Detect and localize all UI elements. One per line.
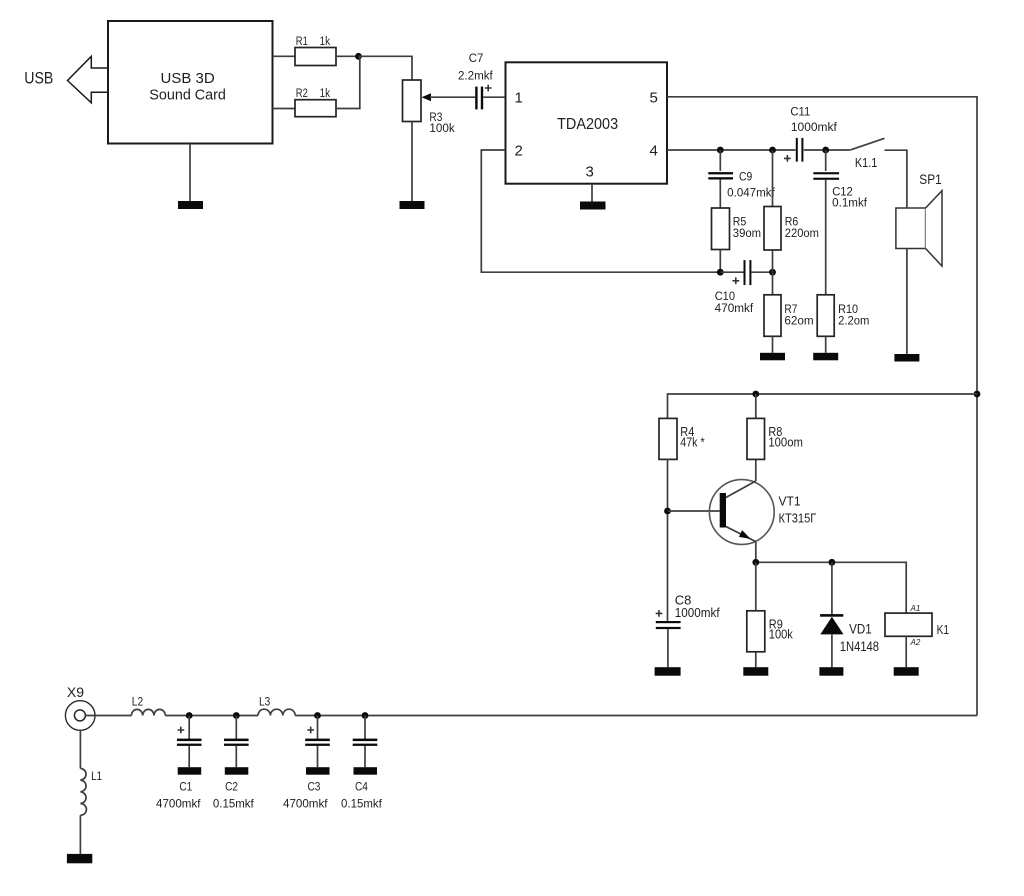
wire R3 to ground	[411, 122, 413, 202]
wire C2 down	[235, 716, 237, 740]
wire L2 to L3	[165, 715, 258, 717]
wire speaker to ground	[906, 249, 908, 355]
wire C12 node down	[825, 150, 827, 171]
wire junction to R3 top	[359, 56, 413, 80]
label C12 0.1mkf	[832, 187, 868, 210]
node VD1 junction	[829, 559, 836, 566]
label VT1 KT315G	[779, 494, 817, 526]
svg-text:C2: C2	[225, 780, 238, 794]
node bus / relay section tap	[974, 391, 981, 398]
svg-text:USB: USB	[24, 70, 53, 88]
svg-text:1k: 1k	[320, 88, 331, 100]
label C9 0.047mkf	[727, 172, 775, 200]
svg-text:1k: 1k	[320, 36, 331, 48]
capacitor C2	[224, 739, 249, 746]
svg-text:K1.1: K1.1	[855, 155, 877, 170]
block USB 3D Sound Card	[108, 21, 273, 144]
wire pin 3 to ground	[591, 184, 593, 202]
resistor R8	[747, 418, 765, 459]
label C1 4700mkf	[156, 780, 201, 811]
wire emitter down	[755, 542, 757, 563]
ground	[400, 201, 425, 209]
svg-text:1: 1	[515, 89, 523, 106]
wire base	[668, 510, 720, 512]
label VD1 1N4148	[840, 622, 879, 654]
resistor R6	[764, 207, 781, 251]
ground	[225, 767, 249, 775]
relay coil K1	[885, 613, 932, 636]
svg-text:A1: A1	[910, 604, 921, 613]
wire pin 4 to C11	[667, 149, 796, 151]
svg-text:0.1mkf: 0.1mkf	[832, 198, 868, 210]
svg-text:R10: R10	[838, 304, 858, 316]
wire node to R7	[772, 272, 774, 295]
label R4 47k*	[680, 425, 704, 449]
ground	[655, 667, 681, 676]
inductor L1	[80, 768, 86, 815]
capacitor C1	[177, 727, 202, 746]
svg-text:1000mkf: 1000mkf	[675, 606, 720, 620]
svg-text:C4: C4	[355, 780, 368, 794]
ground	[178, 201, 203, 209]
ground	[743, 667, 768, 676]
svg-text:1000mkf: 1000mkf	[791, 122, 838, 134]
svg-text:K1: K1	[937, 622, 950, 637]
label R1 1k	[296, 36, 331, 48]
wire pin 2 feedback loop	[481, 150, 720, 272]
svg-text:R1: R1	[296, 36, 308, 48]
svg-text:VD1: VD1	[849, 622, 872, 637]
wire VD1 to ground	[831, 634, 833, 667]
wiper arrow of R3	[422, 93, 432, 101]
wire L3 to right bus	[295, 715, 977, 717]
svg-text:КТ315Г: КТ315Г	[779, 510, 817, 525]
node C3 tap	[314, 712, 321, 719]
ground	[819, 667, 843, 676]
svg-text:2.2om: 2.2om	[838, 315, 869, 327]
wire C10 to R6/R7 node	[751, 271, 772, 273]
ground	[894, 354, 919, 362]
svg-text:47k *: 47k *	[680, 435, 704, 449]
wire sound card to ground	[189, 144, 191, 202]
svg-text:2: 2	[515, 143, 523, 160]
capacitor C10	[733, 260, 752, 285]
wire R10 to ground	[825, 336, 827, 353]
ground	[67, 854, 92, 863]
wire to R9	[755, 562, 757, 611]
label R7 62om	[784, 304, 813, 327]
wire R8 to collector	[755, 394, 757, 481]
node base junction	[664, 508, 671, 515]
wire switch to speaker	[885, 150, 907, 208]
label C11 1000mkf	[790, 107, 837, 135]
ground	[580, 202, 606, 210]
label C4 0.15mkf	[341, 780, 382, 811]
IC U1 TDA2003	[506, 62, 668, 183]
label R2 1k	[296, 88, 331, 100]
svg-text:R5: R5	[733, 217, 747, 229]
ground	[894, 667, 919, 676]
node emitter/R9 junction	[752, 559, 759, 566]
node R6/R7/C10 junction	[769, 269, 776, 276]
wire emitter rail to relay	[756, 562, 906, 613]
inductor L2	[131, 709, 165, 715]
wire R7 to ground	[772, 336, 774, 353]
svg-text:1N4148: 1N4148	[840, 639, 879, 654]
capacitor C9	[708, 172, 733, 179]
capacitor C12	[813, 172, 839, 180]
wire feedback node to C10	[720, 271, 743, 273]
svg-text:L1: L1	[91, 769, 102, 783]
svg-text:2.2mkf: 2.2mkf	[458, 71, 494, 83]
svg-text:R7: R7	[784, 304, 797, 316]
node C2 tap	[233, 712, 240, 719]
diode VD1	[820, 614, 843, 634]
wire C3 down	[317, 716, 319, 740]
wire pin 5 to right bus down to bottom	[667, 97, 977, 716]
svg-text:X9: X9	[67, 685, 84, 700]
label R6 220om	[785, 217, 819, 240]
svg-text:C10: C10	[715, 291, 735, 303]
svg-text:R6: R6	[785, 217, 799, 229]
label C7 2.2mkf	[458, 53, 494, 83]
label R10 2.2om	[838, 304, 869, 327]
label C8 1000mkf	[675, 594, 720, 621]
capacitor C8	[656, 610, 681, 629]
ground	[306, 767, 330, 775]
node R8 tap	[752, 391, 759, 398]
ground	[760, 353, 785, 361]
label C10 470mkf	[715, 291, 754, 315]
wire C8 to ground	[667, 629, 669, 667]
transistor VT1	[709, 480, 774, 545]
ground	[354, 767, 378, 775]
svg-text:220om: 220om	[785, 228, 819, 240]
wire R1 to junction	[336, 55, 359, 57]
svg-text:R2: R2	[296, 88, 308, 100]
resistor R10	[817, 295, 834, 337]
wire sound card to R1	[273, 55, 296, 57]
svg-text:5: 5	[650, 89, 658, 106]
node C1 tap	[186, 712, 193, 719]
wire relay section top rail	[668, 394, 978, 418]
node C11/C12 junction	[822, 147, 829, 154]
wire C9 to R5	[719, 180, 721, 209]
potentiometer R3	[403, 80, 422, 122]
svg-text:C7: C7	[469, 53, 484, 65]
label C3 4700mkf	[283, 780, 328, 811]
resistor R2	[295, 100, 336, 117]
wire C1 to ground	[188, 746, 190, 767]
capacitor C3	[305, 727, 330, 746]
wire C11 to switch	[804, 149, 850, 151]
wire X9 down to L1	[79, 730, 81, 768]
capacitor C11	[784, 138, 803, 162]
speaker SP1	[896, 191, 942, 267]
label C2 0.15mkf	[213, 780, 254, 811]
svg-text:0.15mkf: 0.15mkf	[213, 797, 254, 811]
node junction R1/R2	[355, 53, 362, 60]
svg-text:A2: A2	[910, 638, 921, 647]
svg-text:4700mkf: 4700mkf	[156, 797, 201, 811]
svg-text:470mkf: 470mkf	[715, 303, 754, 315]
svg-text:0.047mkf: 0.047mkf	[727, 187, 775, 199]
svg-text:100om: 100om	[768, 435, 803, 449]
wire wiper to C7	[430, 96, 475, 98]
resistor R5	[712, 208, 730, 250]
node pin4/R6 junction	[769, 147, 776, 154]
wire pin4 to R6	[772, 150, 774, 207]
wire C2 to ground	[235, 746, 237, 767]
svg-text:C9: C9	[739, 172, 752, 184]
wire C4 down	[364, 716, 366, 740]
ground	[813, 353, 838, 361]
inductor L3	[258, 709, 295, 715]
svg-text:C1: C1	[179, 780, 192, 794]
svg-text:39om: 39om	[733, 228, 761, 240]
svg-text:100k: 100k	[769, 628, 794, 642]
svg-text:62om: 62om	[784, 315, 813, 327]
wire C3 to ground	[317, 746, 319, 767]
resistor R9	[747, 611, 765, 652]
wire R4 to C8	[667, 459, 669, 621]
svg-text:L2: L2	[132, 696, 143, 708]
capacitor C4	[353, 739, 378, 746]
wire pin4 junction to C9	[719, 150, 721, 171]
capacitor C7	[475, 85, 491, 110]
svg-text:USB 3D: USB 3D	[161, 70, 215, 87]
svg-text:100k: 100k	[429, 123, 455, 135]
wire X9 to L2	[85, 715, 131, 717]
svg-text:0.15mkf: 0.15mkf	[341, 797, 382, 811]
wire R6 to node	[772, 250, 774, 272]
svg-text:Sound Card: Sound Card	[149, 87, 226, 104]
label R5 39om	[733, 217, 761, 240]
node feedback/C10 junction	[717, 269, 724, 276]
node C4 tap	[362, 712, 369, 719]
svg-text:TDA2003: TDA2003	[557, 116, 618, 133]
svg-text:C11: C11	[790, 107, 810, 119]
svg-text:3: 3	[586, 164, 594, 181]
svg-text:4700mkf: 4700mkf	[283, 797, 328, 811]
label R9 100k	[769, 618, 794, 642]
wire sound card to R2	[273, 108, 296, 110]
wire K1 to ground	[905, 636, 907, 667]
wire C7 to pin 1	[483, 96, 505, 98]
connector X9	[65, 701, 95, 731]
wire R2 up to junction	[336, 56, 360, 108]
wire C1 down	[188, 716, 190, 740]
USB connector block arrow	[68, 56, 109, 103]
label R8 100om	[768, 425, 803, 449]
wire node to VD1	[831, 562, 833, 614]
ground	[178, 767, 202, 775]
svg-text:VT1: VT1	[779, 494, 801, 509]
switch K1.1 blade	[850, 138, 884, 150]
wire L1 to ground	[79, 815, 81, 854]
label R3 100k	[429, 112, 455, 135]
resistor R7	[764, 295, 781, 337]
svg-text:L3: L3	[259, 696, 270, 708]
wire C12 to R10	[825, 180, 827, 295]
svg-text:4: 4	[650, 143, 658, 160]
wire R5 to feedback node	[719, 250, 721, 273]
resistor R1	[295, 48, 336, 66]
resistor R4	[659, 418, 677, 459]
node pin4/C9 junction	[717, 147, 724, 154]
wire R9 to ground	[755, 652, 757, 667]
svg-text:SP1: SP1	[919, 172, 942, 187]
svg-text:C3: C3	[308, 780, 321, 794]
wire C4 to ground	[364, 746, 366, 767]
